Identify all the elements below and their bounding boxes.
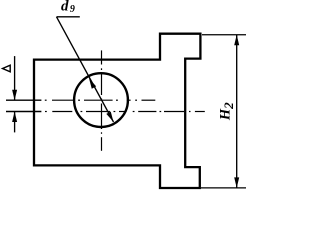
part outline xyxy=(34,34,200,188)
vertical centerline of hole xyxy=(101,50,103,150)
slot centerline (lower), also Delta extension line xyxy=(6,111,205,113)
svg-text:d9: d9 xyxy=(61,0,75,15)
Delta dimension arrow down xyxy=(12,90,17,101)
H2 dimension line xyxy=(236,35,238,188)
H2 extension line bottom xyxy=(201,187,246,189)
svg-text:H2: H2 xyxy=(218,102,236,121)
d9 leader shoulder xyxy=(57,16,80,18)
Delta dimension arrow up xyxy=(12,112,17,123)
horizontal centerline of hole (upper), also Delta extension line xyxy=(6,99,155,101)
Delta dimension line upper leg xyxy=(14,56,16,100)
H2 arrow down xyxy=(234,177,239,188)
d9 arrow upper-left xyxy=(89,78,96,88)
H2 arrow up xyxy=(234,35,239,46)
d9 arrow lower-right xyxy=(106,112,113,122)
d9 diameter dimension line xyxy=(57,17,114,122)
hole circle d9 xyxy=(74,73,128,127)
Delta dimension line lower leg xyxy=(14,112,16,133)
H2 extension line top xyxy=(202,34,246,36)
Delta label (rotated) xyxy=(3,65,11,72)
